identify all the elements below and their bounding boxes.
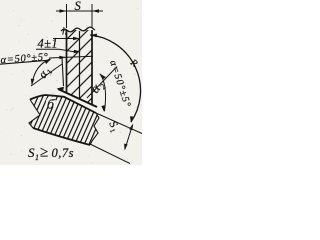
svg-text:≥: ≥ [40,145,48,161]
svg-text:1: 1 [35,153,39,162]
svg-text:S: S [28,145,35,160]
svg-text:0,7s: 0,7s [52,146,75,160]
svg-text:S: S [75,0,82,13]
svg-text:h: h [62,27,67,38]
svg-text:4±1: 4±1 [38,37,59,51]
